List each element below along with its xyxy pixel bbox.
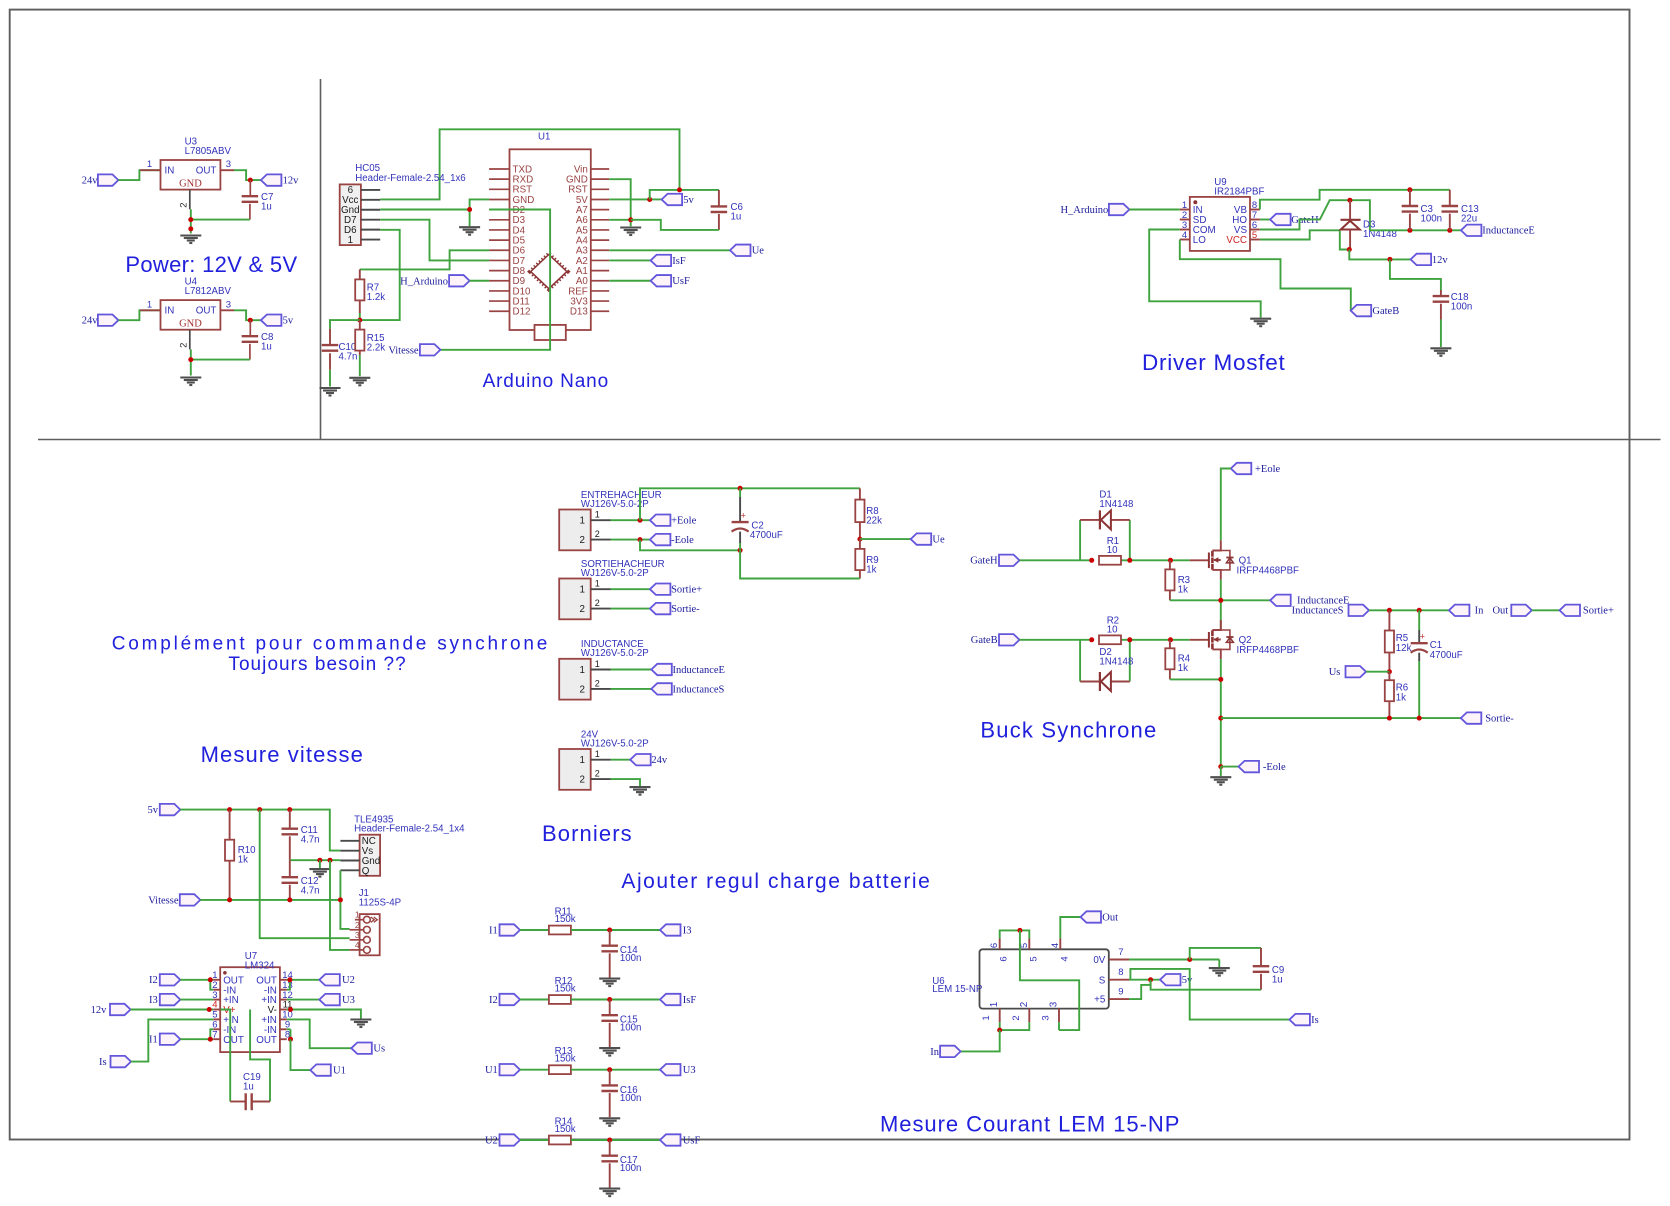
svg-text:100n: 100n <box>620 953 642 964</box>
capacitor C6 1u <box>718 190 720 207</box>
junction <box>857 537 862 542</box>
svg-text:5v: 5v <box>283 316 294 327</box>
mosfet body diode <box>1221 551 1230 570</box>
hier label 5v <box>261 315 282 326</box>
wire 12v to C18 <box>1390 259 1441 290</box>
svg-text:UsF: UsF <box>683 1135 701 1146</box>
junction <box>317 858 322 863</box>
junction <box>638 518 643 523</box>
wire pin1 24v <box>611 759 631 761</box>
capacitor C10 4.7n <box>329 329 331 345</box>
wire +Eole rail <box>1221 469 1231 541</box>
svg-text:Driver Mosfet: Driver Mosfet <box>1142 350 1286 375</box>
wire VCC to 12v net <box>1260 230 1349 249</box>
wire GND pin down <box>190 209 192 233</box>
svg-text:LO: LO <box>1193 235 1206 246</box>
svg-text:IRFP4468PBF: IRFP4468PBF <box>1237 645 1300 656</box>
svg-text:1.2k: 1.2k <box>367 292 385 303</box>
svg-text:D12: D12 <box>513 307 531 318</box>
wire pin1-2 jumper <box>1000 1022 1030 1030</box>
junction <box>638 537 643 542</box>
svg-text:GateB: GateB <box>971 635 998 646</box>
svg-text:+5: +5 <box>1094 995 1106 1006</box>
junction <box>288 1037 293 1042</box>
junction <box>628 217 633 222</box>
resistor R10 1k <box>229 810 231 840</box>
svg-text:Sortie+: Sortie+ <box>1583 606 1614 617</box>
svg-text:2: 2 <box>355 920 360 930</box>
wire I3 to pin3 <box>180 999 213 1001</box>
svg-text:I2: I2 <box>149 975 158 986</box>
junction <box>607 1138 612 1143</box>
wire to R13 <box>520 1069 549 1071</box>
svg-text:5: 5 <box>1252 230 1257 241</box>
svg-text:U3: U3 <box>683 1065 696 1076</box>
svg-text:OUT: OUT <box>223 1035 244 1046</box>
svg-text:GateB: GateB <box>1372 306 1399 317</box>
resistor R13 150k <box>549 1065 571 1074</box>
ground <box>1209 967 1230 969</box>
wire pin1 Sortie+ <box>611 588 650 590</box>
wire bottom return <box>740 550 860 578</box>
U1 mcu glyph <box>531 255 567 289</box>
hier label Sortie+ <box>1560 605 1581 616</box>
wire S to 5v <box>1129 979 1160 981</box>
svg-text:5: 5 <box>1028 956 1039 961</box>
hier label UsF <box>651 275 672 286</box>
wire U1 5V to 5v <box>609 198 661 200</box>
junction <box>647 197 652 202</box>
svg-text:Sortie+: Sortie+ <box>671 585 702 596</box>
junction <box>1407 187 1412 192</box>
resistor R12 150k <box>549 995 571 1004</box>
capacitor C7 <box>249 180 251 196</box>
svg-text:In: In <box>930 1047 939 1058</box>
svg-text:L7812ABV: L7812ABV <box>185 286 232 297</box>
junction <box>188 357 193 362</box>
svg-text:IsF: IsF <box>683 995 697 1006</box>
junction <box>1407 228 1412 233</box>
hier label Out <box>1081 911 1102 922</box>
svg-text:InductanceE: InductanceE <box>1482 226 1534 237</box>
hier label Sortie+ <box>650 584 671 595</box>
junction <box>248 178 253 183</box>
wire header Gnd <box>380 209 469 211</box>
svg-text:S: S <box>1099 975 1106 986</box>
hier label GateB <box>1351 305 1372 316</box>
svg-text:1u: 1u <box>731 212 742 223</box>
svg-text:Arduino Nano: Arduino Nano <box>483 371 609 392</box>
U1 usb connector <box>535 325 566 340</box>
svg-text:U2: U2 <box>485 1135 498 1146</box>
svg-text:IN: IN <box>165 306 175 317</box>
svg-text:Complément pour commande synch: Complément pour commande synchrone <box>112 634 550 655</box>
junction <box>1017 928 1022 933</box>
svg-text:6: 6 <box>989 943 1000 948</box>
junction <box>1387 716 1392 721</box>
svg-text:InductanceS: InductanceS <box>1292 606 1344 617</box>
junction <box>227 807 232 812</box>
wire pin14-13 bracket to U2 <box>287 979 320 981</box>
svg-text:2: 2 <box>1019 1002 1030 1007</box>
hier label Sortie- <box>1461 712 1482 723</box>
hier label 12v <box>1411 254 1432 265</box>
wire S to Is <box>1130 969 1289 1020</box>
wire LO to GateB <box>1180 240 1351 311</box>
svg-text:3: 3 <box>226 299 231 310</box>
svg-text:1: 1 <box>348 235 353 246</box>
svg-text:Ue: Ue <box>752 246 765 257</box>
wire R7 to U1 D6 <box>360 250 489 269</box>
regulator U4 L7812ABV <box>161 300 221 330</box>
mosfet arrow <box>1214 559 1221 561</box>
svg-text:Sortie-: Sortie- <box>671 604 700 615</box>
svg-text:1u: 1u <box>1272 974 1283 985</box>
svg-text:1k: 1k <box>1178 584 1188 595</box>
capacitor C8 <box>249 320 251 336</box>
mosfet drain <box>1212 620 1220 630</box>
wire gnd mid rail <box>290 859 341 861</box>
svg-text:3: 3 <box>1041 1015 1052 1020</box>
svg-text:Borniers: Borniers <box>542 821 633 846</box>
hier label U3 <box>660 1064 681 1075</box>
mosfet source <box>1212 570 1220 580</box>
svg-text:In: In <box>1475 606 1484 617</box>
wire A6 to gnd node <box>609 219 631 221</box>
svg-text:10: 10 <box>1107 545 1118 556</box>
wire D2 to Vitesse <box>440 210 550 350</box>
component U1 Arduino Nano <box>510 149 591 330</box>
component U9 IR2184PBF <box>1190 197 1250 251</box>
hier label +Eole <box>1231 463 1252 474</box>
svg-text:4.7n: 4.7n <box>301 835 320 846</box>
wire R13 to U3 <box>571 1069 660 1071</box>
hier label In <box>1449 605 1470 616</box>
wire InductanceS to In <box>1369 609 1449 611</box>
svg-text:1: 1 <box>595 510 600 520</box>
junction <box>248 318 253 323</box>
junction <box>467 207 472 212</box>
wire Vcc to U1 top <box>380 129 679 199</box>
ground <box>1250 318 1271 320</box>
wire R12 to IsF <box>571 999 660 1001</box>
svg-text:Is: Is <box>1311 1015 1319 1026</box>
capacitor C16 100n <box>609 1070 611 1086</box>
svg-text:4700uF: 4700uF <box>750 530 783 541</box>
wire to R14 <box>520 1139 549 1141</box>
svg-text:-Eole: -Eole <box>671 535 694 546</box>
svg-text:Buck Synchrone: Buck Synchrone <box>980 718 1157 743</box>
hier label Us <box>351 1043 372 1054</box>
svg-text:I2: I2 <box>489 995 498 1006</box>
wire pin4 to Out <box>1060 917 1080 939</box>
svg-text:24v: 24v <box>82 176 99 187</box>
svg-text:1k: 1k <box>1178 663 1188 674</box>
svg-text:1u: 1u <box>243 1082 254 1093</box>
svg-text:1: 1 <box>147 299 152 310</box>
hier label 12v <box>261 174 282 185</box>
svg-text:LM324: LM324 <box>245 961 275 972</box>
svg-text:150k: 150k <box>555 914 576 925</box>
capacitor C18 100n <box>1440 290 1442 296</box>
junction <box>208 977 213 982</box>
capacitor C1 4700uF <box>1418 610 1420 630</box>
svg-text:Sortie-: Sortie- <box>1485 714 1514 725</box>
svg-text:5v: 5v <box>1182 975 1193 986</box>
ground <box>180 376 201 378</box>
wire VB to top rail <box>1260 190 1450 210</box>
svg-text:+Eole: +Eole <box>1255 464 1281 475</box>
svg-text:Vitesse: Vitesse <box>388 345 419 356</box>
wire vitesse rail <box>200 899 340 901</box>
hier label Ue <box>730 245 751 256</box>
junction <box>1218 716 1223 721</box>
resistor R15 2.2k <box>359 320 361 330</box>
wire Sortie- rail <box>1221 717 1461 719</box>
op-amp U7 LM324 <box>220 967 280 1052</box>
hier label -Eole <box>650 534 671 545</box>
hier label InductanceS <box>651 683 672 694</box>
svg-text:1N4148: 1N4148 <box>1099 656 1133 667</box>
hier label InductanceE <box>1270 595 1291 606</box>
junction <box>338 897 343 902</box>
wire Q down to vitesse rail <box>340 870 349 929</box>
svg-text:4.7n: 4.7n <box>339 351 358 362</box>
wire pin2 to ground <box>611 779 641 786</box>
ground <box>349 377 370 379</box>
svg-text:1: 1 <box>981 1015 992 1020</box>
junction <box>677 187 682 192</box>
svg-text:100n: 100n <box>620 1163 642 1174</box>
junction <box>1089 637 1094 642</box>
wire to R11 <box>520 929 549 931</box>
pin 2 GND lead <box>189 330 191 350</box>
svg-text:3: 3 <box>226 159 231 170</box>
wire pin6-5 jumper <box>1000 930 1030 938</box>
wire gnd node to C6 bottom <box>631 220 719 230</box>
mosfet gate lead <box>1190 639 1209 641</box>
ground <box>599 1117 620 1119</box>
svg-text:4: 4 <box>355 940 360 950</box>
capacitor C15 100n <box>609 1000 611 1016</box>
junction <box>1168 637 1173 642</box>
svg-text:2: 2 <box>178 343 189 348</box>
junction <box>1218 764 1223 769</box>
capacitor C9 1u <box>1260 948 1262 966</box>
junction <box>328 858 333 863</box>
svg-text:1: 1 <box>579 585 584 596</box>
junction <box>287 977 292 982</box>
hier label 5v <box>1160 974 1181 985</box>
svg-text:2: 2 <box>579 604 584 615</box>
wire pin9-8 bracket <box>290 1029 292 1039</box>
wire V- to ground <box>287 1010 361 1019</box>
wire COM to ground <box>1149 230 1261 318</box>
svg-text:5v: 5v <box>148 805 159 816</box>
ground <box>180 234 201 236</box>
resistor R7 1.2k <box>359 269 361 279</box>
svg-text:12k: 12k <box>1396 643 1412 654</box>
junction <box>357 318 362 323</box>
wire 24v to IN <box>118 310 160 320</box>
svg-text:8: 8 <box>1118 967 1123 978</box>
ground <box>459 226 480 228</box>
diode D1 1N4148 <box>1080 519 1100 521</box>
wire gate row <box>1020 559 1092 561</box>
mosfet source <box>1212 649 1220 659</box>
svg-text:Us: Us <box>373 1044 385 1055</box>
svg-text:I3: I3 <box>683 925 692 936</box>
svg-text:2: 2 <box>595 529 600 539</box>
ground <box>320 387 341 389</box>
junction <box>287 897 292 902</box>
wire R11 to I3 <box>571 929 660 931</box>
wire 0V to C9 top <box>1190 948 1261 960</box>
svg-text:OUT: OUT <box>256 1035 277 1046</box>
ground <box>599 978 620 980</box>
capacitor C11 4.7n <box>289 810 291 829</box>
hier label Sortie- <box>650 603 671 614</box>
hier label U2 <box>319 974 340 985</box>
mosfet drain <box>1212 540 1220 550</box>
capacitor C12 4.7n <box>289 860 291 877</box>
wire H_Arduino to D9 <box>470 280 490 282</box>
wire header D6 down <box>360 230 400 320</box>
svg-text:IR2184PBF: IR2184PBF <box>1214 187 1264 198</box>
wire pin8 to U1 <box>291 1039 311 1070</box>
junction <box>997 1028 1002 1033</box>
hier label Is <box>1289 1014 1310 1025</box>
svg-text:InductanceE: InductanceE <box>673 665 725 676</box>
wire to R12 <box>520 999 549 1001</box>
header TLE4935 <box>360 835 381 876</box>
junction <box>257 807 262 812</box>
wire phase node <box>1170 599 1270 601</box>
wire 12v to V+ <box>131 1009 214 1011</box>
junction <box>1417 608 1422 613</box>
wire 0V to ground <box>1129 959 1219 961</box>
junction <box>1447 228 1452 233</box>
svg-text:WJ126V-5.0-2P: WJ126V-5.0-2P <box>581 738 649 749</box>
wire Is to pin5 <box>131 1019 213 1061</box>
wire Out to Sortie+ <box>1532 609 1560 611</box>
ground <box>599 1047 620 1049</box>
hier label U1 <box>310 1064 331 1075</box>
connector SORTIEHACHEUR <box>559 579 591 620</box>
svg-text:Ajouter regul charge batterie: Ajouter regul charge batterie <box>621 870 931 893</box>
svg-text:4.7n: 4.7n <box>301 885 320 896</box>
resistor R9 1k <box>859 539 861 549</box>
svg-text:2: 2 <box>595 769 600 779</box>
ground <box>309 868 330 870</box>
svg-text:U1: U1 <box>485 1065 498 1076</box>
resistor R11 150k <box>549 926 571 935</box>
wire OUT to 12v <box>234 170 261 180</box>
svg-text:0V: 0V <box>1093 955 1105 966</box>
ground <box>630 786 651 788</box>
svg-text:12v: 12v <box>283 175 300 186</box>
wire VS to diode node <box>1260 200 1370 230</box>
svg-text:24v: 24v <box>82 316 99 327</box>
wire OUT to 5v <box>234 310 261 320</box>
capacitor C3 100n <box>1409 190 1411 206</box>
resistor R14 150k <box>549 1136 571 1145</box>
wire gnd to J1 pin4 <box>330 860 350 950</box>
svg-text:1k: 1k <box>238 855 248 866</box>
svg-text:UsF: UsF <box>672 276 690 287</box>
ground <box>1210 776 1231 778</box>
wire V- inside to C19 <box>250 1010 270 1102</box>
svg-text:3: 3 <box>1049 1001 1060 1007</box>
svg-text:2: 2 <box>1011 1015 1022 1020</box>
wire I2 to pins 1-2 <box>180 979 213 981</box>
junction <box>1347 247 1352 252</box>
wire 5v net to C6 <box>650 190 719 200</box>
junction <box>288 1007 293 1012</box>
junction <box>1187 957 1192 962</box>
svg-text:+: + <box>741 511 746 521</box>
svg-text:1k: 1k <box>1396 692 1406 703</box>
connector 24V <box>559 749 591 790</box>
junction <box>1218 677 1223 682</box>
svg-text:WJ126V-5.0-2P: WJ126V-5.0-2P <box>581 648 649 659</box>
wire pin2 Sortie- <box>611 608 650 610</box>
junction <box>1127 637 1132 642</box>
svg-text:2.2k: 2.2k <box>367 343 385 354</box>
junction <box>1168 558 1173 563</box>
wire pin10 to Us <box>287 1019 352 1048</box>
svg-text:150k: 150k <box>555 1124 576 1135</box>
svg-text:9: 9 <box>1118 987 1123 998</box>
component U6 LEM 15-NP <box>980 949 1109 1008</box>
svg-text:U1: U1 <box>333 1066 346 1077</box>
svg-text:150k: 150k <box>555 984 576 995</box>
svg-text:1: 1 <box>579 516 584 527</box>
svg-text:GateH: GateH <box>1291 215 1319 226</box>
wire pin12 to U3 <box>287 999 320 1001</box>
wire U1 GND left <box>470 199 490 226</box>
svg-text:IN: IN <box>165 166 175 177</box>
ground <box>1430 347 1451 349</box>
svg-text:Vitesse: Vitesse <box>148 895 179 906</box>
svg-text:1k: 1k <box>866 564 876 575</box>
hier label -Eole <box>1239 761 1260 772</box>
pin 2 GND lead <box>189 190 191 210</box>
wire R4 to rail <box>1170 678 1221 680</box>
svg-text:LEM 15-NP: LEM 15-NP <box>932 984 982 995</box>
svg-text:I1: I1 <box>489 925 498 936</box>
hier label 24v <box>630 754 651 765</box>
hier label GateH <box>1260 219 1270 221</box>
mosfet body diode <box>1221 630 1230 649</box>
mosfet gate lead <box>1190 559 1209 561</box>
svg-text:2: 2 <box>595 598 600 608</box>
hier label Ue <box>911 533 932 544</box>
wire 24v to IN <box>118 170 160 180</box>
hier label U3 <box>319 994 340 1005</box>
connector ENTREHACHEUR <box>559 510 591 551</box>
resistor R6 1k <box>1388 672 1390 681</box>
svg-text:I3: I3 <box>149 995 158 1006</box>
ground <box>599 1188 620 1190</box>
connector INDUCTANCE <box>559 659 591 700</box>
wire Us <box>1366 671 1389 673</box>
wire junction to C10 <box>330 320 360 329</box>
svg-text:24v: 24v <box>651 755 668 766</box>
svg-text:2: 2 <box>579 535 584 546</box>
wire inside to pin3 <box>1020 930 1079 1030</box>
diode loop verticals <box>1079 520 1081 560</box>
